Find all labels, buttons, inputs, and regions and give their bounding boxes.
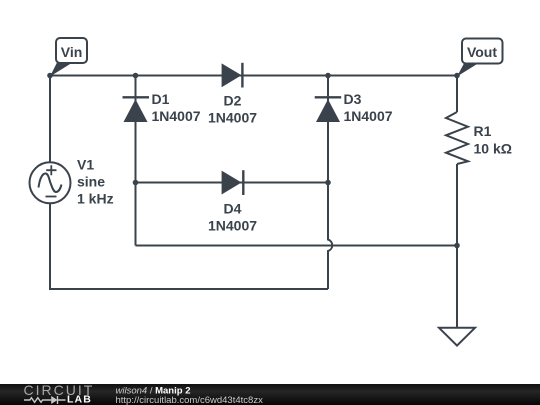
node Vin junction dot xyxy=(47,73,53,79)
svg-text:D1: D1 xyxy=(152,91,170,107)
svg-text:D3: D3 xyxy=(344,91,362,107)
node label Vin xyxy=(50,38,87,77)
svg-text:R1: R1 xyxy=(474,123,492,139)
wire: middle rail y=182.5 xyxy=(136,182,329,184)
svg-text:D2: D2 xyxy=(224,93,242,109)
diode D4 xyxy=(208,170,257,233)
svg-text:Vin: Vin xyxy=(61,44,83,60)
svg-text:1 kHz: 1 kHz xyxy=(77,191,114,207)
node Vout junction dot xyxy=(454,73,460,79)
svg-text:1N4007: 1N4007 xyxy=(344,108,393,124)
wire: D3 branch vertical x=328 with hop over y=245.5 xyxy=(328,76,332,290)
svg-text:1N4007: 1N4007 xyxy=(152,108,201,124)
svg-text:10 kΩ: 10 kΩ xyxy=(474,141,512,157)
wire: lower horizontal rail y=245.5 xyxy=(136,245,458,247)
wire: left vertical from Vin node to V1 top xyxy=(49,76,51,163)
resistor R1 xyxy=(446,112,512,164)
junction dot middle rail x=328 xyxy=(325,180,331,186)
CircuitLab logo xyxy=(24,382,95,405)
svg-text:Vout: Vout xyxy=(467,44,497,60)
junction dot top rail x=135.5 xyxy=(133,73,139,79)
diode D3 xyxy=(315,91,393,124)
ground xyxy=(439,328,475,346)
junction dot middle rail x=135.5 xyxy=(133,180,139,186)
svg-text:sine: sine xyxy=(77,174,105,190)
wire: D1/D3 branch vertical x=135.5 down to lower rail xyxy=(135,76,137,246)
wire: V1 bottom to bottom-left corner xyxy=(50,204,328,290)
diode D1 xyxy=(123,91,201,124)
junction dot top rail x=328 xyxy=(325,73,331,79)
svg-text:LAB: LAB xyxy=(67,394,92,405)
voltage source V1 xyxy=(30,157,114,207)
diode D2 xyxy=(208,63,257,126)
footer bar xyxy=(0,384,540,405)
wire: right vertical Vout to R1 top xyxy=(456,76,458,113)
wire: top rail Vin to Vout xyxy=(50,75,457,77)
svg-text:http://circuitlab.com/c6wd43t4: http://circuitlab.com/c6wd43t4tc8zx xyxy=(116,395,264,405)
svg-text:V1: V1 xyxy=(77,157,94,173)
junction dot lower rail x=457 xyxy=(454,243,460,249)
svg-text:1N4007: 1N4007 xyxy=(208,218,257,234)
wire: R1 bottom to ground xyxy=(456,164,458,328)
svg-text:1N4007: 1N4007 xyxy=(208,110,257,126)
node label Vout xyxy=(457,39,503,77)
svg-text:D4: D4 xyxy=(224,201,242,217)
